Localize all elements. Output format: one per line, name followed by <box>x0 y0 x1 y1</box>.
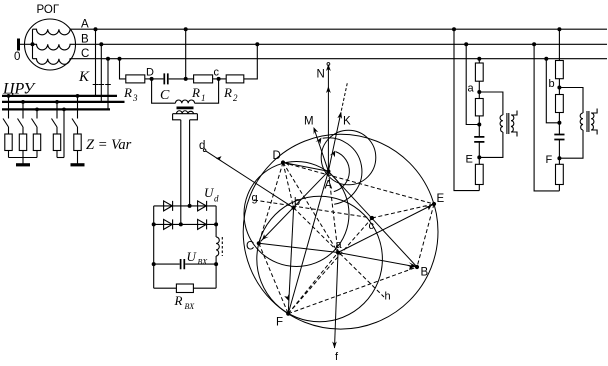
transformer1 secondary <box>511 115 514 132</box>
rectifier bridge left side <box>153 206 155 288</box>
node branch2 C-junction <box>557 121 561 125</box>
svg-text:R: R <box>223 85 232 100</box>
svg-text:ВХ: ВХ <box>198 258 209 267</box>
dashed D-a <box>283 163 338 253</box>
node a <box>336 250 340 254</box>
circle lower-left <box>257 196 383 322</box>
node E <box>477 155 481 159</box>
dashed D-A-E <box>283 163 434 205</box>
node D <box>281 160 285 164</box>
wire phase A <box>71 28 607 30</box>
resistor R3 <box>126 75 145 83</box>
arrowhead at B (C-B line) <box>407 265 414 270</box>
generator winding phase A <box>33 29 72 35</box>
node bridge in left <box>179 222 183 226</box>
line A-B <box>328 171 417 267</box>
dashed c-E <box>372 204 434 218</box>
line a-f <box>335 253 339 349</box>
load branch 4 <box>52 100 61 158</box>
svg-text:c: c <box>369 220 375 232</box>
resistor R BX <box>176 284 193 293</box>
wire E to transformer1 <box>479 132 503 157</box>
neutral terminal 0 <box>17 39 20 51</box>
dashed b-a <box>294 208 384 297</box>
generator neutral common wire <box>32 29 34 59</box>
svg-text:1: 1 <box>201 93 206 103</box>
svg-text:a: a <box>468 83 475 95</box>
wire secondary left lead <box>180 120 182 225</box>
wire R3 to D <box>145 78 152 80</box>
transformer2 secondary <box>591 113 594 130</box>
node F <box>286 312 290 316</box>
generator G (РОГ) <box>25 19 76 70</box>
svg-text:F: F <box>276 317 283 329</box>
svg-text:К: К <box>78 69 90 85</box>
wire joining branches 1-3 <box>9 157 38 159</box>
node C-feed <box>106 57 110 61</box>
node B-drop branch1 <box>464 42 468 46</box>
right branch 1: node A-drop <box>452 27 456 31</box>
node b <box>292 206 296 210</box>
wire a to transformer1 <box>479 92 503 115</box>
arrowhead angle-arc inner <box>330 151 336 158</box>
line a-E <box>338 204 434 253</box>
diode VD3 <box>164 219 173 229</box>
wire phase C <box>71 58 607 60</box>
wire c down to transformer <box>195 79 219 103</box>
wire branch1 left <box>454 29 479 190</box>
diode VD2 <box>198 201 207 211</box>
svg-text:M: M <box>304 116 314 128</box>
node a <box>477 90 481 94</box>
resistor branch1 mid <box>475 99 483 116</box>
resistor branch2 bottom <box>556 164 564 184</box>
arrowhead K mid <box>337 112 342 120</box>
arrowhead f tip <box>332 342 337 349</box>
node c <box>217 77 221 81</box>
resistor branch2 mid <box>556 95 564 113</box>
resistor branch2 top <box>556 61 564 79</box>
node c <box>370 216 374 220</box>
short-circuit point K ticks <box>93 84 111 86</box>
svg-text:R: R <box>174 293 183 308</box>
cap rail <box>154 263 216 265</box>
transformer1 secondary leads <box>511 111 517 137</box>
dashed F-B (h) <box>288 267 417 314</box>
svg-text:h: h <box>385 291 391 303</box>
node rail2 left <box>152 222 156 226</box>
svg-text:РОГ: РОГ <box>37 4 60 16</box>
wire tap down <box>120 59 126 79</box>
diode VD4 <box>198 219 207 229</box>
svg-text:K: K <box>343 116 351 128</box>
transformer2 core <box>587 111 589 132</box>
capacitor C2 (U BX) <box>181 259 185 269</box>
line A-F <box>288 171 328 313</box>
wire feed C to busbar <box>107 59 109 110</box>
capacitor branch1 <box>474 137 484 142</box>
svg-text:b: b <box>549 78 555 90</box>
load branch 1 <box>3 94 12 158</box>
wire secondary right lead <box>189 120 191 206</box>
wire F to transformer2 <box>559 130 583 158</box>
bottom rail <box>154 287 216 289</box>
arrowhead at B (A-B line) <box>409 262 416 268</box>
svg-text:C: C <box>160 88 170 103</box>
node B-feed <box>99 42 103 46</box>
right branch 2: node B-drop <box>532 42 536 46</box>
wire neutral <box>20 43 33 45</box>
svg-text:0: 0 <box>14 51 20 63</box>
dashed g-b-c <box>254 200 372 218</box>
arrowhead at d <box>216 156 223 162</box>
svg-text:A: A <box>81 19 89 31</box>
node C <box>257 241 261 245</box>
dashed F-c <box>288 218 372 314</box>
transformer T core <box>177 107 194 110</box>
capacitor branch2 <box>554 135 564 140</box>
transformer2 primary <box>580 113 583 130</box>
wire branch2 mid <box>546 59 559 123</box>
inductor L <box>216 237 219 256</box>
capacitor C <box>164 73 168 84</box>
line A-C through b <box>261 171 329 241</box>
circle big right <box>243 134 438 329</box>
svg-text:R: R <box>123 85 132 100</box>
svg-text:2: 2 <box>233 93 238 103</box>
arrowhead angle-arc outer <box>316 138 322 145</box>
ground of branches 1-3 <box>16 163 30 166</box>
node A-drop branch2 <box>557 27 561 31</box>
svg-text:a: a <box>336 239 343 251</box>
resistor branch1 top <box>475 63 483 81</box>
resistor R2 <box>226 75 244 83</box>
wire R1 to c <box>213 78 227 80</box>
wire D down to transformer <box>152 79 176 103</box>
node C-drop branch1 <box>477 57 481 61</box>
angle arc inner at A <box>334 152 350 192</box>
generator winding phase C <box>33 59 72 65</box>
node junction cap-R1 <box>184 77 188 81</box>
svg-text:F: F <box>546 154 553 166</box>
svg-text:3: 3 <box>132 93 138 103</box>
transformer T secondary <box>177 111 194 114</box>
dashed A-a <box>328 171 338 252</box>
svg-text:d: d <box>199 140 205 152</box>
svg-text:g: g <box>252 192 258 204</box>
svg-text:b: b <box>294 196 300 208</box>
svg-text:C: C <box>246 241 254 253</box>
inductor core dashed <box>221 237 223 256</box>
vector A-K <box>328 116 340 172</box>
wire branch1 mid <box>466 44 479 124</box>
load branch 2 <box>18 100 27 164</box>
svg-text:U: U <box>187 249 198 264</box>
svg-text:c: c <box>214 67 220 79</box>
wire b to transformer2 <box>559 88 583 114</box>
wire feed A to busbar <box>95 29 97 96</box>
svg-text:A: A <box>325 180 333 192</box>
busbar 2 <box>2 101 125 103</box>
wire cap to junction <box>169 78 194 80</box>
generator winding phase B <box>33 44 72 50</box>
wire branch2 main <box>558 29 560 191</box>
svg-text:Z = Var: Z = Var <box>86 137 132 153</box>
wire from phase A down <box>184 27 188 31</box>
resistor R1 <box>194 75 213 83</box>
arrowhead at D <box>285 161 292 166</box>
circle upper-left <box>244 162 349 267</box>
dashed C-F <box>259 243 288 313</box>
wire feed B to busbar <box>100 44 102 102</box>
svg-text:E: E <box>437 193 445 205</box>
wire branch2 left <box>534 44 559 191</box>
diode VD1 <box>164 201 173 211</box>
wire branch1 main <box>478 59 480 191</box>
line b-F <box>288 208 293 314</box>
arrowhead before C <box>262 234 269 240</box>
bridge rail 1 <box>154 205 216 207</box>
node C-drop branch2 <box>544 57 548 61</box>
arrowhead before F (b-F) <box>284 294 289 301</box>
arrowhead at E (a-E line) <box>424 205 431 210</box>
dashed F-a <box>288 253 338 314</box>
load branch 5 (Z=Var) <box>72 94 81 164</box>
bridge rail 2 <box>154 223 216 225</box>
transformer2 secondary leads <box>591 109 597 135</box>
node b <box>557 86 561 90</box>
svg-text:D: D <box>273 150 281 162</box>
wire D to cap <box>152 78 164 80</box>
transformer1 core <box>507 113 509 134</box>
busbar 1 <box>2 95 117 97</box>
svg-text:N: N <box>317 69 325 81</box>
arrowhead N tip <box>326 64 331 71</box>
dashed E-B <box>417 204 434 267</box>
load branch 3 <box>32 108 41 158</box>
vector A-M <box>314 129 328 172</box>
wire R2 up to phase B <box>244 44 257 79</box>
line A-D <box>283 163 328 172</box>
node rail2 right <box>214 222 218 226</box>
resistor branch1 bottom <box>475 164 483 184</box>
line C-B <box>259 243 417 267</box>
ground of branch 5 <box>71 163 85 166</box>
dashed D-b <box>283 163 294 208</box>
node neutral junction <box>31 42 35 46</box>
busbar 3 <box>2 108 110 110</box>
node bridge in right <box>188 204 192 208</box>
wire branch 4 to return <box>57 157 64 159</box>
node A-feed <box>94 27 98 31</box>
bridge right side wire <box>215 206 217 237</box>
node branch1 B-junction <box>477 123 481 127</box>
svg-text:B: B <box>81 34 89 46</box>
node C to R3 tap <box>118 57 122 61</box>
transformer1 primary <box>500 115 503 132</box>
circle small (top) <box>321 130 376 185</box>
svg-text:E: E <box>466 154 473 166</box>
svg-text:B: B <box>421 267 429 279</box>
svg-text:d: d <box>214 194 219 204</box>
wire phase B <box>71 43 607 45</box>
vector A-N <box>327 66 329 171</box>
dashed D-C <box>259 163 283 244</box>
node A <box>326 169 330 173</box>
svg-text:R: R <box>191 85 200 100</box>
svg-text:ЦРУ: ЦРУ <box>2 81 36 98</box>
arrowhead N mid <box>326 86 331 93</box>
node D <box>150 77 154 81</box>
line d-b <box>206 151 294 208</box>
arrowhead M tip <box>314 127 319 134</box>
transformer T primary <box>175 100 194 103</box>
node B <box>415 265 419 269</box>
svg-text:C: C <box>81 48 89 60</box>
node N tip <box>327 63 330 66</box>
angle arc outer at A <box>323 138 362 205</box>
wire return of branch 4 <box>62 108 66 112</box>
node F <box>557 156 561 160</box>
node E <box>432 202 436 206</box>
svg-text:D: D <box>146 67 154 79</box>
svg-text:ВХ: ВХ <box>185 302 196 311</box>
